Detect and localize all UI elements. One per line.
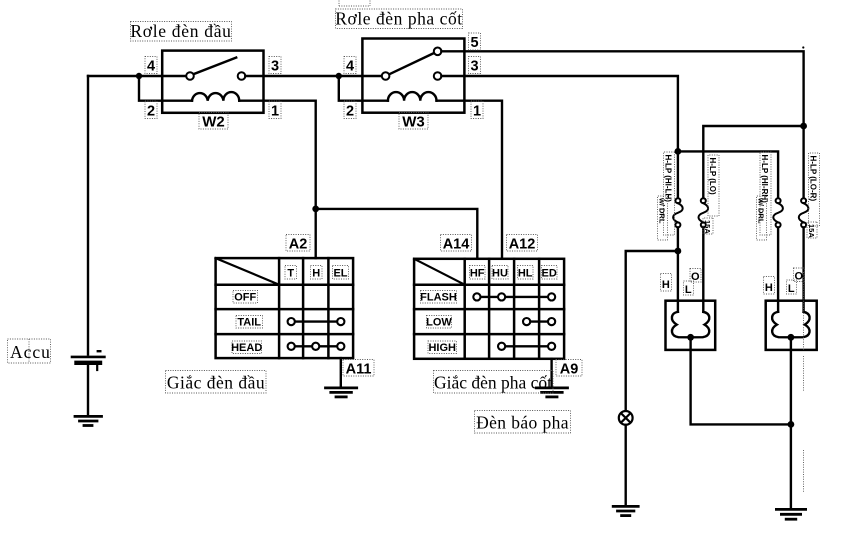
svg-text:3: 3: [470, 59, 478, 75]
label: fuse F1 name (vertical): [664, 152, 675, 235]
svg-text:HIGH: HIGH: [428, 342, 456, 354]
node: junction bus / W3 coil branch: [336, 73, 342, 79]
relay W3 contact pin 5 side: [434, 48, 442, 56]
relay W2 switch arm: [193, 58, 236, 75]
connector table Giắc đèn đầu (A2): [216, 258, 354, 358]
relay W2 box: [162, 51, 263, 113]
wire: indicator lamp to ground: [625, 425, 627, 506]
svg-text:H-LP (LO-R): H-LP (LO-R): [809, 156, 818, 202]
svg-text:w/ DRL: w/ DRL: [757, 197, 766, 224]
svg-text:A14: A14: [443, 237, 470, 253]
label: right lamp H filament: [764, 277, 775, 295]
label: fuse F4 note (vertical): [807, 222, 817, 238]
label: W3 pin 5: [469, 33, 481, 51]
label: A14: [441, 235, 472, 253]
node: junction A2/A14 split: [312, 206, 319, 213]
label: A9: [556, 360, 582, 378]
fuse F1 (H-LP HI-LH): [673, 198, 683, 227]
svg-text:5: 5: [470, 35, 478, 51]
label: table1 row TAIL: [236, 316, 263, 329]
svg-text:A11: A11: [346, 362, 372, 378]
label: Giắc đèn pha cốt: [434, 371, 554, 394]
svg-text:Accu: Accu: [10, 342, 51, 362]
svg-text:A12: A12: [509, 237, 536, 253]
node: junction battery bus / W2 coil branch: [136, 73, 142, 79]
wire: fuse F3 to right lamp H filament: [777, 227, 779, 311]
svg-text:W3: W3: [402, 114, 425, 131]
relay W3 contact pin 4 side: [382, 72, 390, 80]
table2 LOW row contact strip: [523, 318, 555, 325]
label: Rơle đèn đầu: [130, 21, 231, 41]
label: right lamp LO filament O: [794, 268, 805, 283]
svg-text:ED: ED: [542, 268, 557, 280]
label: table2 row LOW: [426, 316, 452, 329]
wire: W2 coil feed (junction down and right into pin 2): [139, 76, 192, 101]
node: junction pin3 line split to right lamp HI: [675, 148, 682, 155]
svg-text:Rơle đèn pha cốt: Rơle đèn pha cốt: [335, 9, 462, 29]
label: W3 pin 2: [344, 101, 356, 120]
label: W2 pin 1: [269, 101, 281, 120]
wire: W2 pin 3 to W3 pin 4: [245, 75, 381, 77]
fuse F3 (H-LP HI-RH): [773, 198, 783, 227]
svg-text:H: H: [765, 282, 773, 294]
ground: indicator lamp ground: [613, 506, 638, 515]
svg-text:HF: HF: [470, 268, 485, 280]
label: W2 pin 4: [145, 57, 157, 75]
wire: pin3 junction right then down to fuse F3: [678, 151, 778, 198]
battery Accu: [72, 351, 104, 416]
label: table1 header H: [311, 266, 323, 280]
svg-text:Giắc đèn pha cốt: Giắc đèn pha cốt: [434, 373, 552, 393]
lamp: right headlamp LO filament: [791, 312, 810, 338]
label: W3: [399, 113, 428, 131]
label: fuse F2 note (vertical): [703, 218, 713, 234]
svg-text:HL: HL: [518, 268, 533, 280]
label: Giắc đèn đầu: [166, 371, 267, 394]
label: left lamp LO filament O: [690, 269, 701, 284]
artifact: dotted selection line through right lamp: [803, 272, 805, 492]
label: Rơle đèn pha cốt: [335, 9, 462, 29]
relay W2 coil: [192, 92, 239, 101]
connector table Giắc đèn pha cốt (A14/A12): [414, 259, 564, 359]
relay W3 contact pin 3 side: [434, 72, 442, 80]
svg-text:1: 1: [271, 104, 279, 120]
table1 TAIL row contact strip: [288, 318, 345, 325]
label: table1 row HEAD: [231, 341, 262, 354]
ground: battery ground: [75, 416, 102, 425]
node: junction indicator tap: [675, 248, 682, 255]
label: table2 row FLASH: [420, 291, 457, 304]
wire: W3 coil out pin 1, right then down to A12: [437, 101, 503, 259]
svg-text:15A: 15A: [703, 220, 712, 234]
ground: right lamps ground: [776, 509, 805, 519]
svg-text:H-LP (LO): H-LP (LO): [708, 158, 717, 196]
wire: W2 coil out pin 1, right then down to table junction: [239, 101, 316, 258]
fuse F2 (H-LP LO-LH): [699, 198, 709, 227]
label: table2 header HF: [470, 266, 486, 280]
wire: indicator branch left and down: [626, 251, 678, 411]
label: W2 pin 2: [145, 101, 157, 120]
node: right lamp filament common junction: [788, 334, 795, 341]
ground: A11: [326, 388, 357, 397]
svg-text:L: L: [788, 283, 795, 295]
relay W3 box: [362, 39, 464, 113]
wire: junction to A14 drop: [316, 209, 478, 259]
svg-text:O: O: [795, 271, 804, 283]
wire: right lamp ground lead down: [790, 337, 792, 509]
label: left lamp H filament: [661, 274, 672, 292]
label: fuse F3 note (vertical): [757, 196, 767, 240]
fuse F4 (H-LP LO-RH): [799, 198, 809, 227]
svg-text:O: O: [691, 271, 700, 283]
table2 HIGH row contact strip: [498, 343, 555, 350]
svg-text:OFF: OFF: [234, 292, 256, 304]
label: A11: [343, 360, 374, 378]
relay W3 switch arm: [389, 53, 434, 75]
svg-text:2: 2: [346, 104, 354, 120]
wire: fuse F1 to left lamp H filament: [677, 227, 679, 311]
svg-text:H-LP (HI-LH): H-LP (HI-LH): [664, 155, 673, 203]
wire: left lamp ground lead down then right: [691, 337, 791, 424]
svg-text:T: T: [287, 268, 294, 280]
label: W3 pin 4: [344, 57, 356, 75]
wire: main bus from battery to W2 switch contact: [88, 75, 186, 77]
label: A2: [286, 235, 310, 253]
label: table1 header T: [285, 266, 297, 280]
relay W3 coil: [388, 92, 437, 101]
indicator lamp Đèn báo pha: [619, 411, 633, 425]
label: table2 header ED: [542, 266, 558, 280]
label: fuse F1 note (vertical): [658, 196, 668, 240]
table2 FLASH row contact strip: [473, 293, 555, 300]
artifact: stray dot above pin5 corner: [802, 46, 804, 48]
label: fuse F2 name (vertical): [708, 155, 719, 216]
lamp: left headlamp H filament: [672, 312, 691, 338]
svg-text:A2: A2: [289, 237, 308, 253]
wire: A9 ground lead: [550, 359, 552, 388]
label: W3 pin 3: [469, 57, 481, 75]
svg-text:H: H: [312, 268, 320, 280]
relay W2 contact pin 4 side: [186, 72, 194, 80]
relay W2 contact pin 3 side: [238, 72, 246, 80]
svg-text:w/ DRL: w/ DRL: [658, 197, 667, 224]
wire: battery positive lead down from bus: [87, 76, 89, 355]
svg-text:A9: A9: [560, 362, 579, 378]
node: left lamp filament common junction: [687, 334, 694, 341]
svg-text:W2: W2: [202, 114, 225, 131]
svg-text:15A: 15A: [807, 224, 816, 238]
svg-text:EL: EL: [333, 268, 347, 280]
label: Đèn báo pha: [475, 411, 571, 434]
table1 HEAD row contact strip: [288, 343, 345, 350]
label: table1 row OFF: [233, 291, 258, 304]
label: fuse F3 name (vertical): [760, 152, 771, 235]
label: left lamp LO filament L: [684, 281, 694, 296]
svg-text:Rơle đèn đầu: Rơle đèn đầu: [130, 21, 231, 41]
label: A12: [507, 235, 538, 253]
svg-text:L: L: [685, 284, 692, 296]
wire: fuse F4 to right lamp LO filament: [802, 227, 804, 311]
svg-text:H: H: [662, 279, 670, 291]
svg-text:FLASH: FLASH: [420, 292, 457, 304]
wire: W3 pin 5 to top right corner and down: [441, 51, 803, 198]
lamp: left headlamp LO filament: [691, 312, 710, 338]
label: table1 header EL: [333, 266, 349, 280]
label: table2 header HU: [492, 266, 508, 280]
svg-text:HU: HU: [492, 268, 508, 280]
label: table2 row HIGH: [428, 341, 457, 354]
wire: W3 pin 3 right and down to fuse F1: [441, 76, 678, 198]
artifact: stray dotted fragment above W3 label: [339, 1, 370, 7]
svg-text:2: 2: [147, 104, 155, 120]
label: W2: [199, 113, 228, 131]
label: table2 header HL: [518, 266, 534, 280]
wire: fuse F2 to left lamp LO filament: [702, 227, 704, 311]
svg-text:Giắc đèn đầu: Giắc đèn đầu: [167, 373, 265, 393]
label: W3 pin 1: [471, 101, 483, 120]
lamp: left headlamp box: [666, 301, 716, 350]
lamp: right headlamp box: [766, 301, 817, 350]
svg-text:TAIL: TAIL: [237, 317, 261, 329]
svg-text:1: 1: [473, 104, 481, 120]
lamp: right headlamp H filament: [772, 312, 791, 338]
wire: W3 coil feed (junction down and right into pin 2): [339, 76, 388, 101]
ground: A9: [536, 388, 567, 397]
wire: pin5 junction left then down to fuse F2: [703, 126, 803, 198]
label: Accu: [8, 339, 51, 363]
svg-text:4: 4: [346, 59, 354, 75]
node: junction pin5 line split to left lamp LO: [800, 123, 807, 130]
svg-text:3: 3: [271, 59, 279, 75]
label: right lamp LO filament L: [787, 280, 797, 295]
node: junction lamp grounds: [788, 421, 795, 428]
wire: A11 ground lead: [340, 358, 342, 387]
svg-text:HEAD: HEAD: [231, 342, 262, 354]
svg-text:4: 4: [147, 59, 155, 75]
svg-text:Đèn báo pha: Đèn báo pha: [476, 413, 569, 433]
label: fuse F4 name (vertical): [809, 153, 820, 226]
svg-text:LOW: LOW: [426, 317, 452, 329]
label: W2 pin 3: [269, 57, 281, 75]
